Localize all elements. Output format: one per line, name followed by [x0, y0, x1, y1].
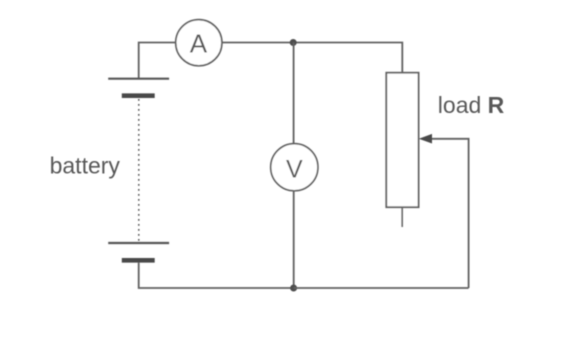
wire: ammeter right through top node to resistor top: [222, 43, 402, 74]
svg-text:V: V: [286, 155, 303, 183]
resistor bottom stub: [401, 208, 403, 227]
wire: ammeter left to battery top: [139, 43, 177, 79]
svg-text:A: A: [190, 29, 208, 59]
resistor R (load): [386, 73, 418, 208]
battery top cell long plate: [108, 78, 169, 80]
voltmeter V1: [271, 144, 318, 191]
wiper arrow wire: right riser up and over to arrow: [430, 139, 469, 288]
wire: battery bottom to bottom rail: [139, 263, 293, 288]
battery bottom cell short thick plate: [122, 258, 155, 263]
svg-text:load R: load R: [438, 92, 505, 118]
battery top cell short thick plate: [122, 93, 155, 98]
svg-text:battery: battery: [50, 153, 121, 179]
ammeter A1: [176, 20, 222, 66]
wire: top junction down to voltmeter: [293, 43, 295, 145]
battery bottom cell long plate: [108, 242, 169, 244]
battery internal dotted link: [138, 99, 140, 242]
node: top junction: [290, 39, 297, 46]
wire: voltmeter down to bottom node: [293, 191, 295, 288]
node: bottom junction: [290, 285, 297, 292]
wiper arrowhead: [419, 134, 432, 144]
battery B1: [108, 79, 169, 261]
wire: bottom rail from node to right corner: [294, 287, 469, 289]
